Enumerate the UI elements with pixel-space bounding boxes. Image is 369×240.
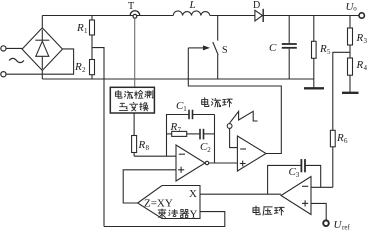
AC tilde bbox=[9, 58, 24, 62]
feedback right vertical to U1 output bbox=[214, 115, 216, 164]
current detection box bbox=[110, 87, 154, 113]
svg-text:1: 1 bbox=[183, 105, 187, 113]
resistor R2 bbox=[90, 60, 95, 75]
capacitor C1 bbox=[188, 110, 190, 120]
svg-text:Z=XY: Z=XY bbox=[144, 198, 173, 210]
sawtooth waveform bbox=[230, 111, 258, 123]
svg-text:S: S bbox=[222, 45, 228, 56]
svg-text:8: 8 bbox=[146, 144, 150, 152]
resistor R8 bbox=[132, 136, 137, 153]
wire upper terminal to bridge bbox=[6, 47, 22, 49]
reference terminal Uref bbox=[323, 220, 329, 226]
resistor R3 bbox=[349, 16, 351, 29]
U2 plus bbox=[240, 163, 246, 165]
resistor R6 bbox=[330, 130, 335, 147]
bridge diode bbox=[41, 30, 43, 41]
wire lower terminal to bridge right vertex bbox=[6, 49, 74, 74]
op-amp polarity signs bbox=[178, 149, 308, 207]
svg-text:R: R bbox=[74, 61, 82, 73]
switch S blade bbox=[213, 42, 218, 55]
svg-text:D: D bbox=[253, 0, 260, 11]
wire U1 output to comparator bbox=[209, 162, 238, 164]
svg-text:R: R bbox=[138, 139, 146, 151]
svg-text:1: 1 bbox=[84, 27, 88, 35]
svg-text:L: L bbox=[189, 0, 196, 11]
resistor R4 bbox=[348, 58, 353, 75]
resistor R5 bbox=[313, 16, 315, 42]
U1 output bubble bbox=[205, 161, 208, 164]
svg-text:C: C bbox=[269, 42, 277, 54]
bridge bottom lead to rail bbox=[41, 71, 43, 80]
svg-text:T: T bbox=[128, 1, 134, 12]
svg-text:2: 2 bbox=[207, 146, 211, 154]
voltage error amplifier U3 (points left) bbox=[281, 177, 311, 215]
bridge rectifier diamond bbox=[22, 28, 62, 71]
svg-text:2: 2 bbox=[82, 66, 86, 74]
wire sawtooth to comparator inverting input bbox=[230, 128, 238, 147]
text 电流环 bbox=[202, 98, 209, 107]
bottom rail (DC- bus) bbox=[42, 78, 314, 80]
svg-text:Y: Y bbox=[190, 209, 198, 221]
wire multiplier Y input to divider bottom wire bbox=[104, 212, 225, 227]
wire T to detection box bbox=[134, 18, 136, 87]
svg-text:R: R bbox=[336, 132, 344, 144]
wire multiplier Z to op-amp non-inverting input bbox=[123, 170, 176, 203]
switch drive arrow bbox=[188, 47, 203, 49]
wire U3 output / multiplier X input bbox=[200, 193, 281, 195]
text 电流检测 line1 bbox=[115, 90, 121, 98]
bridge top lead to rail bbox=[41, 16, 43, 28]
text 与变换 line2 bbox=[119, 103, 127, 110]
U1 minus bbox=[179, 153, 185, 155]
resistor R7 bbox=[167, 133, 172, 135]
ground (R4) bbox=[342, 92, 359, 94]
diode D bbox=[255, 10, 263, 21]
svg-text:5: 5 bbox=[327, 48, 331, 56]
wire switch upper lead bbox=[217, 16, 219, 41]
top rail (DC+ bus) bbox=[42, 15, 173, 17]
node T ring bbox=[133, 14, 137, 18]
U2 minus bbox=[240, 148, 246, 150]
svg-text:3: 3 bbox=[364, 37, 368, 45]
C3 feedback loop bbox=[268, 165, 302, 194]
wire R1/R2 divider tap to bottom bbox=[92, 48, 104, 227]
op-amp U1 current error amplifier bbox=[176, 145, 205, 181]
AC source terminal lower bbox=[1, 72, 6, 77]
svg-text:R: R bbox=[356, 59, 364, 71]
U3 minus bbox=[302, 185, 308, 187]
text 乘法器 bbox=[158, 209, 166, 218]
wire box to R8 bbox=[133, 113, 135, 136]
sawtooth generator node circle bbox=[227, 124, 232, 129]
comparator U2 bbox=[237, 136, 266, 171]
capacitor C2 bbox=[199, 129, 201, 140]
U3 plus bbox=[302, 202, 308, 204]
wire U3 inverting input to R6 bbox=[311, 186, 333, 188]
wire U3 non-inverting input to Uref bbox=[311, 203, 326, 220]
svg-text:R: R bbox=[356, 32, 364, 44]
capacitor C bbox=[288, 16, 290, 44]
resistor R1 bbox=[91, 16, 93, 21]
wire comparator output to switch drive bbox=[188, 48, 281, 154]
svg-text:R: R bbox=[76, 22, 84, 34]
AC source terminal upper bbox=[1, 46, 6, 51]
svg-text:3: 3 bbox=[296, 171, 300, 179]
inductor L coil bbox=[173, 11, 210, 16]
node T hop arc bbox=[130, 11, 140, 16]
ground (R5) bbox=[304, 87, 324, 89]
text 电压环 bbox=[253, 206, 260, 215]
wire switch lower lead bbox=[217, 55, 219, 79]
wire R8 to op-amp inverting input bbox=[134, 155, 176, 157]
output terminal Uo bbox=[359, 13, 364, 18]
svg-text:6: 6 bbox=[344, 137, 348, 145]
wire R3/R4 tap to R6 bbox=[333, 52, 350, 130]
svg-text:X: X bbox=[189, 188, 197, 200]
capacitor C3 bbox=[300, 159, 302, 172]
svg-text:R: R bbox=[170, 121, 178, 133]
svg-text:7: 7 bbox=[178, 126, 182, 134]
svg-text:4: 4 bbox=[364, 64, 368, 72]
svg-text:ref: ref bbox=[342, 224, 350, 232]
U1 plus bbox=[178, 169, 184, 171]
multiplier block Z=XY bbox=[138, 186, 200, 219]
svg-text:R: R bbox=[319, 43, 327, 55]
feedback network C1 branch bbox=[167, 115, 189, 157]
svg-text:o: o bbox=[353, 4, 357, 12]
